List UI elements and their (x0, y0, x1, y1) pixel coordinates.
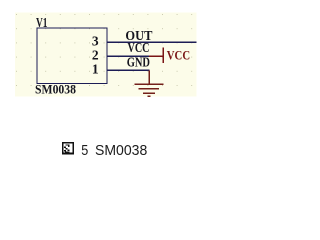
IC V1 SM0038 body (37, 28, 107, 84)
power port VCC symbol (bar) (149, 48, 164, 63)
schematic sheet background (15, 13, 197, 97)
svg-text:V1: V1 (36, 16, 48, 31)
svg-text:2: 2 (92, 48, 99, 63)
figure caption: character 图 drawn as glyph (63, 143, 73, 154)
svg-text:VCC: VCC (128, 40, 150, 55)
figure caption text: 5 SM0038 (81, 142, 147, 159)
power ground symbol (134, 70, 163, 96)
svg-text:SM0038: SM0038 (95, 142, 147, 159)
svg-text:3: 3 (92, 34, 99, 49)
svg-text:SM0038: SM0038 (35, 81, 76, 96)
svg-text:5: 5 (81, 142, 88, 159)
svg-text:1: 1 (92, 62, 99, 77)
wire net GND (pin 1) (108, 69, 150, 71)
svg-text:GND: GND (127, 55, 150, 70)
svg-text:VCC: VCC (167, 48, 190, 63)
wire net OUT (pin 3) (108, 41, 197, 43)
wire net VCC (pin 2) (108, 55, 150, 57)
